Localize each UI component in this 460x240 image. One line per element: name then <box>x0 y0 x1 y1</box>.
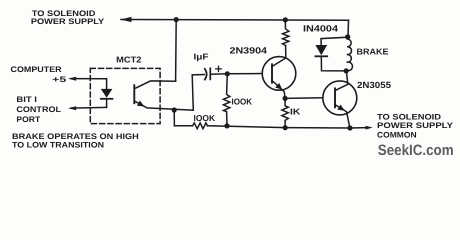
wire cap branch riser <box>192 75 204 111</box>
svg-text:2N3904: 2N3904 <box>230 46 268 56</box>
svg-text:MCT2: MCT2 <box>116 55 141 65</box>
resistor 1K <box>282 98 288 127</box>
transistor 2N3904 circle <box>262 57 296 91</box>
svg-text:IK: IK <box>290 107 301 117</box>
2N3904 emitter lead <box>272 81 285 99</box>
2N3055 base bar <box>334 88 336 107</box>
bottom rail left end <box>174 125 192 127</box>
diode 1N4004 <box>315 45 327 55</box>
arrow to solenoid power supply (left tip) <box>120 17 132 22</box>
svg-text:COMPUTER: COMPUTER <box>11 65 62 74</box>
node: cap/100K/base junction <box>225 71 230 76</box>
node: 2N3904 emitter/1K/2N3055 base junction <box>283 96 288 101</box>
2N3055 emitter arrow <box>337 105 345 111</box>
svg-text:2N3055: 2N3055 <box>357 80 391 90</box>
svg-text:BIT I: BIT I <box>16 95 37 104</box>
phototransistor emitter arrow <box>137 101 145 107</box>
wire rail to common arrow <box>350 127 366 129</box>
wire emitter node down to bottom rail <box>173 110 175 126</box>
MCT2 optocoupler dashed box <box>90 68 160 123</box>
node: rail/1K junction <box>283 125 288 130</box>
svg-text:POWER SUPPLY: POWER SUPPLY <box>377 121 454 130</box>
wire 2N3904 emitter node to 2N3055 base <box>285 97 323 100</box>
capacitor 1uF straight plate <box>209 68 211 79</box>
svg-text:IOOK: IOOK <box>232 97 253 107</box>
svg-text:TO LOW TRANSITION: TO LOW TRANSITION <box>12 141 104 150</box>
svg-text:COMMON: COMMON <box>377 130 417 139</box>
phototransistor base bar <box>133 85 135 103</box>
wire +5 input <box>71 78 107 80</box>
wire diode branch top <box>321 37 348 45</box>
inductor BRAKE coil <box>346 39 352 71</box>
wire base node to 2N3904 base <box>227 73 262 75</box>
resistor collector (unlabeled) <box>283 20 289 46</box>
svg-text:PORT: PORT <box>16 115 40 124</box>
wire rail to opto collector <box>175 20 178 82</box>
LED of MCT2 (diode) <box>101 89 113 98</box>
wire rail corner down to diode/brake node <box>347 20 350 37</box>
wire bottom rail <box>208 126 351 128</box>
capacitor polarity plus <box>216 68 221 70</box>
wire cap to base node <box>210 73 227 75</box>
arrow control port (left tip) <box>68 106 76 110</box>
2N3904 emitter arrow <box>275 83 282 90</box>
2N3904 base bar <box>271 64 273 82</box>
svg-text:+5: +5 <box>52 75 67 84</box>
node: emitter/cap/rail junction <box>172 107 177 112</box>
2N3904 collector lead <box>272 46 286 67</box>
svg-text:SeekIC.com: SeekIC.com <box>378 142 454 159</box>
svg-text:BRAKE: BRAKE <box>357 46 389 56</box>
wire LED cathode drop <box>106 99 108 108</box>
wire bit1 control port <box>71 106 107 109</box>
arrow +5 (left tip) <box>68 77 76 81</box>
node: diode/brake bottom junction <box>344 68 349 73</box>
svg-text:POWER SUPPLY: POWER SUPPLY <box>31 17 105 26</box>
arrow to solenoid power supply common (right tip) <box>366 126 373 130</box>
resistor 100K horizontal (bottom) <box>193 123 208 129</box>
node: 1N4004/brake top junction <box>345 34 350 39</box>
phototransistor emitter <box>134 101 193 110</box>
wire top supply rail <box>121 19 349 22</box>
svg-text:IμF: IμF <box>194 51 209 61</box>
wire diode branch bottom <box>321 56 346 71</box>
node: rail/opto-collector junction <box>174 17 179 22</box>
node: rail/2N3055 emitter junction <box>347 125 352 130</box>
svg-text:CONTROL: CONTROL <box>16 105 61 114</box>
resistor 100K vertical (right) <box>223 74 229 126</box>
wire LED anode drop <box>106 79 108 89</box>
node: rail/2N3904 collector resistor junction <box>283 17 288 22</box>
node: rail/100K junction <box>224 123 229 128</box>
capacitor 1uF curved plate <box>205 69 207 80</box>
svg-text:IOOK: IOOK <box>194 113 216 123</box>
2N3055 emitter lead <box>335 105 350 128</box>
svg-text:IN4004: IN4004 <box>303 23 338 33</box>
transistor 2N3055 circle <box>323 81 357 115</box>
phototransistor collector <box>134 81 175 89</box>
2N3055 collector lead <box>335 71 348 91</box>
